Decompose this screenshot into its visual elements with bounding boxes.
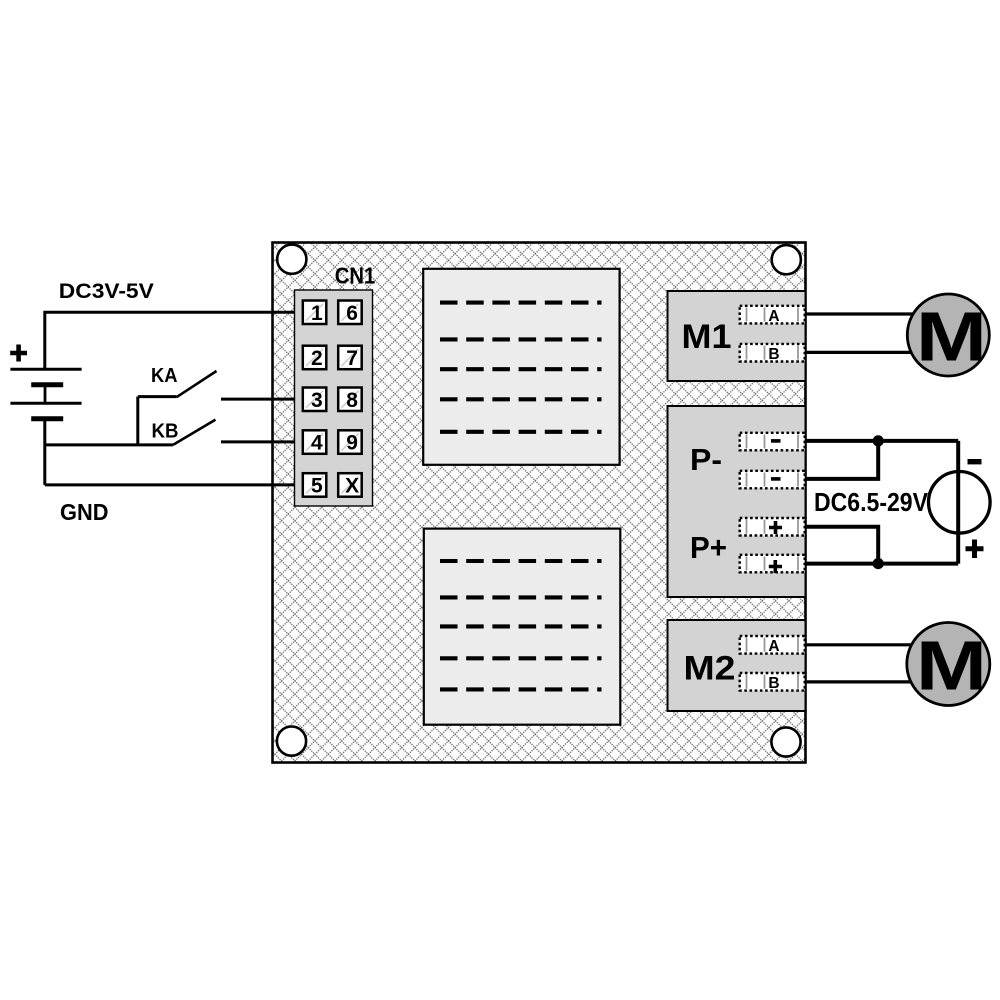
connector P body	[668, 406, 806, 597]
wire P- upper to supply negative	[805, 439, 958, 443]
svg-text:9: 9	[346, 432, 358, 455]
motor M2	[907, 623, 990, 706]
svg-text:CN1: CN1	[335, 263, 376, 289]
label supply positive	[966, 540, 984, 559]
terminal M1-A	[740, 306, 805, 325]
switch KB blade	[173, 420, 216, 445]
connector CN1 body	[295, 290, 373, 506]
svg-text:P-: P-	[690, 442, 722, 477]
pin 5	[303, 473, 327, 497]
svg-text:X: X	[345, 475, 359, 498]
connector M2 body	[668, 620, 806, 711]
wire P+ upper join	[805, 527, 878, 564]
svg-text:8: 8	[346, 389, 358, 412]
svg-text:3: 3	[311, 389, 323, 412]
wire M2-B to motor 2	[805, 680, 915, 683]
mounting hole top-right	[772, 245, 801, 274]
svg-text:6: 6	[346, 302, 358, 325]
wire P- lower join	[805, 441, 878, 479]
power source DC6.5-29V	[929, 472, 991, 534]
pin 9	[338, 430, 362, 454]
terminal P+ 1	[740, 518, 805, 536]
switch KA blade	[177, 371, 217, 397]
board PCB outline	[273, 243, 806, 763]
terminal M1-B	[740, 344, 805, 363]
wire GND to pin 5	[45, 483, 303, 486]
svg-text:M: M	[916, 297, 987, 376]
wire KA contact to pin 3	[221, 398, 303, 401]
mounting hole top-left	[277, 245, 306, 274]
svg-text:B: B	[768, 675, 779, 692]
svg-text:1: 1	[311, 302, 323, 325]
pin 6	[338, 301, 362, 325]
terminal M2-A	[740, 636, 805, 655]
pin 1	[303, 301, 327, 325]
svg-text:P+: P+	[690, 530, 727, 565]
wire supply vertical through source	[956, 441, 960, 564]
pin 8	[338, 388, 362, 412]
svg-text:KA: KA	[151, 364, 178, 387]
wire M2-A to motor 2	[805, 643, 915, 646]
svg-text:KB: KB	[152, 419, 179, 442]
wire VCC DC3V-5V to pin 1	[45, 312, 303, 369]
svg-text:A: A	[768, 638, 779, 655]
svg-text:B: B	[768, 346, 779, 363]
svg-text:7: 7	[346, 347, 358, 370]
pin 2	[303, 346, 327, 370]
battery DC3V-5V symbol	[10, 345, 81, 419]
svg-text:4: 4	[311, 432, 323, 455]
terminal P- 1	[740, 433, 805, 451]
wire M1-B to motor 1	[805, 351, 915, 354]
module block 2 (dashed lines)	[424, 529, 621, 725]
wire KB contact to pin 4	[221, 440, 303, 443]
wire KA pole vertical	[136, 397, 139, 445]
mounting hole bottom-left	[277, 727, 306, 756]
module block 1 (dashed lines)	[423, 269, 619, 465]
pin X	[338, 473, 362, 497]
svg-text:GND: GND	[60, 499, 109, 525]
wire battery negative down	[43, 419, 46, 485]
connector M1 body	[668, 291, 806, 381]
terminal M2-B	[740, 673, 805, 692]
pin 7	[338, 346, 362, 370]
pin 3	[303, 388, 327, 412]
pin 4	[303, 430, 327, 454]
junction P-	[873, 435, 884, 446]
svg-text:2: 2	[311, 347, 323, 370]
terminal P+ 2	[740, 555, 805, 573]
svg-text:M2: M2	[684, 650, 736, 688]
svg-text:DC3V-5V: DC3V-5V	[59, 280, 154, 303]
svg-text:M: M	[916, 626, 987, 705]
wire M1-A to motor 1	[805, 312, 915, 315]
mounting hole bottom-right	[771, 727, 800, 756]
label supply negative	[968, 459, 982, 464]
svg-text:M1: M1	[682, 318, 732, 356]
svg-text:DC6.5-29V: DC6.5-29V	[814, 487, 929, 517]
svg-text:5: 5	[311, 475, 323, 498]
wire negative rail to KB pole	[45, 443, 173, 446]
wire KA pole horizontal	[138, 395, 177, 398]
junction P+	[873, 558, 884, 569]
svg-text:A: A	[768, 308, 779, 325]
motor M1	[907, 294, 989, 376]
wire P+ lower to supply positive	[805, 562, 958, 566]
terminal P- 2	[740, 471, 805, 489]
